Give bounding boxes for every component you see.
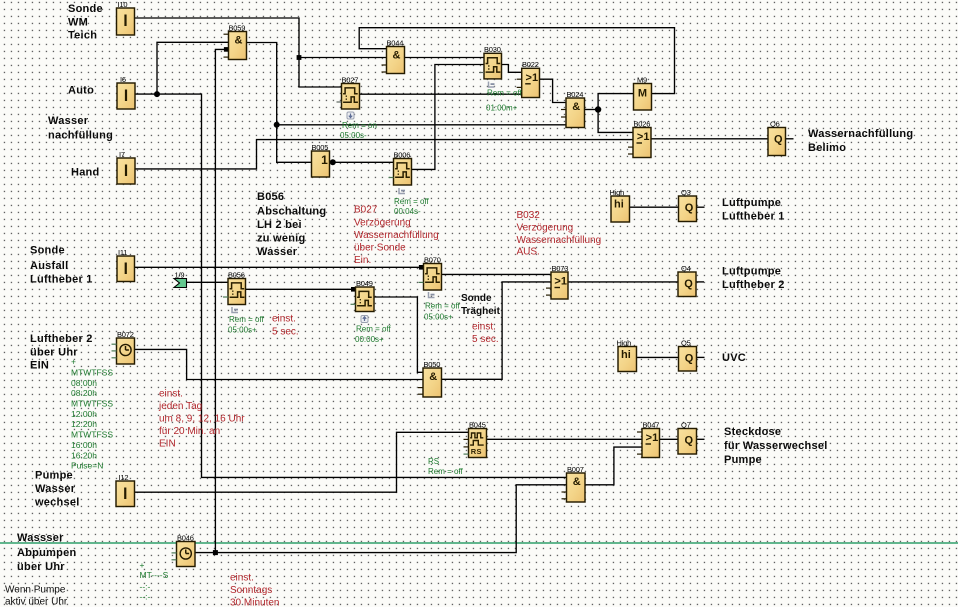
- timer B027 on-delay: [342, 84, 360, 110]
- wire junction to B044.in2: [299, 57, 387, 59]
- svg-text:nachfüllung: nachfüllung: [48, 130, 113, 142]
- value icon below B049 (up arrow): [361, 316, 368, 323]
- svg-text:einst.: einst.: [230, 573, 254, 584]
- svg-text:für Wasserwechsel: für Wasserwechsel: [724, 440, 828, 452]
- pin stub B007.in4: [562, 498, 567, 500]
- svg-text:Luftheber 2: Luftheber 2: [30, 333, 93, 345]
- pin stub B073.in4: [546, 294, 551, 296]
- svg-text:Wassernachfüllung: Wassernachfüllung: [808, 128, 913, 140]
- pin stub B046.par1: [172, 552, 177, 554]
- wire junction up to B059.in3: [215, 49, 225, 552]
- pin stub B045.in3: [464, 446, 469, 448]
- wire I11.out to B070.in1: [135, 266, 424, 268]
- svg-text:High: High: [610, 188, 625, 197]
- svg-text:5 sec.: 5 sec.: [472, 334, 499, 345]
- svg-text:LH 2 bei: LH 2 bei: [257, 219, 302, 231]
- svg-text:einst.: einst.: [159, 389, 183, 400]
- svg-text:08:20h: 08:20h: [71, 388, 97, 398]
- wire Q3 output stub: [697, 206, 705, 208]
- pin stub B059.in4: [224, 56, 229, 58]
- svg-text:Belimo: Belimo: [808, 142, 846, 154]
- svg-text:AUS.: AUS.: [517, 247, 540, 258]
- pin stub B026.in3: [628, 146, 633, 148]
- AND gate B050: [423, 368, 442, 397]
- svg-text:Ein.: Ein.: [354, 255, 371, 266]
- svg-text:Pumpe: Pumpe: [35, 470, 73, 482]
- svg-text:Luftheber 2: Luftheber 2: [722, 279, 785, 291]
- svg-text:Q5: Q5: [681, 338, 691, 347]
- svg-text:Auto: Auto: [68, 85, 94, 97]
- svg-text:B056: B056: [228, 270, 245, 279]
- wire B030.out to B022.in1: [502, 65, 522, 73]
- wire hi2.out to Q5.in: [637, 356, 679, 358]
- wire Q4 output stub: [696, 281, 704, 283]
- NOT gate B005: [312, 151, 330, 177]
- svg-text:hi: hi: [614, 199, 624, 211]
- pin stub B072.par1: [112, 343, 117, 345]
- svg-text:I7: I7: [119, 150, 125, 159]
- svg-text:wechsel: wechsel: [34, 497, 80, 509]
- wire Q5 output stub: [697, 356, 705, 358]
- wire I6.out to junction: [135, 93, 157, 95]
- svg-text:Rem = off: Rem = off: [425, 302, 461, 311]
- pin stub B044.in3: [382, 64, 387, 66]
- negation underline mark B022: [525, 83, 531, 85]
- svg-text:Wassser: Wassser: [17, 532, 64, 544]
- svg-text:>1: >1: [646, 432, 659, 444]
- svg-text:+: +: [140, 560, 145, 570]
- svg-text:30 Minuten: 30 Minuten: [230, 598, 279, 607]
- pin stub B070.in2 parameter: [419, 281, 424, 283]
- svg-text:Rem = off: Rem = off: [394, 197, 430, 206]
- node pin square at B070.in1: [419, 265, 424, 270]
- wire I12.out up to B045.in1: [135, 432, 469, 492]
- svg-text:B027: B027: [342, 75, 359, 84]
- svg-text:Luftpumpe: Luftpumpe: [722, 197, 781, 209]
- wire B046.out to junction: [195, 552, 215, 554]
- value icon below B056: [232, 307, 238, 313]
- svg-text:Luftheber 1: Luftheber 1: [722, 211, 785, 223]
- svg-text:Trägheit: Trägheit: [461, 306, 501, 317]
- timer B006: [394, 159, 412, 186]
- input block I10: [117, 8, 135, 35]
- svg-text:16:00h: 16:00h: [71, 440, 97, 450]
- wire I10.out to corner: [135, 18, 300, 58]
- pulse relay B045 RS: [469, 429, 487, 458]
- svg-text:Rem = on: Rem = on: [342, 121, 377, 130]
- svg-text:Abpumpen: Abpumpen: [17, 547, 76, 559]
- value icon below B006: [399, 188, 405, 194]
- svg-text:>1: >1: [554, 276, 567, 288]
- pin stub B049.in2 parameter: [351, 303, 356, 305]
- svg-text:B047: B047: [643, 420, 660, 429]
- svg-text:B022: B022: [522, 60, 539, 69]
- AND gate B059: [229, 32, 247, 60]
- AND gate B044: [387, 47, 405, 74]
- constant-high block High (hi): [611, 196, 630, 222]
- output block Q3: [679, 196, 697, 222]
- node junction dot at (276.7,124.8): [274, 122, 280, 128]
- wire hi1.out to Q3.in: [630, 206, 679, 208]
- pin stub B045.in2: [464, 438, 469, 440]
- svg-text:hi: hi: [621, 349, 631, 361]
- pin stub B073.in3: [546, 287, 551, 289]
- pin stub B027.in2 parameter: [337, 101, 342, 103]
- node T-junction square at (215.4,552.6): [213, 550, 218, 555]
- pin stub B072.par3: [112, 357, 117, 359]
- svg-text:&: &: [235, 35, 243, 47]
- svg-text:B050: B050: [424, 360, 441, 369]
- AND gate B024: [566, 98, 585, 128]
- pin stub B047.in4: [637, 453, 642, 455]
- pin stub B072.par2: [112, 350, 117, 352]
- svg-text:1: 1: [321, 153, 328, 167]
- timer B030: [484, 53, 502, 79]
- pin stub B047.in1: [637, 431, 642, 433]
- svg-text:über Sonde: über Sonde: [354, 243, 406, 254]
- svg-text:MTWTFSS: MTWTFSS: [71, 399, 113, 409]
- value icon below B030: [489, 82, 495, 88]
- wire B005.out to B006.in1: [330, 161, 394, 163]
- wire B070.out to B073.in1: [442, 273, 552, 275]
- timer B070: [424, 264, 442, 291]
- output block Q7: [678, 429, 697, 455]
- flag block M9: [634, 84, 652, 111]
- svg-text:B046: B046: [177, 533, 194, 542]
- svg-text:jeden Tag: jeden Tag: [158, 401, 202, 412]
- wire junction to B024.in4: [277, 124, 566, 126]
- input block I11: [117, 256, 135, 282]
- svg-text:für 20 Min. an: für 20 Min. an: [159, 426, 220, 437]
- node T-junction square at (299,57.5): [297, 55, 302, 60]
- svg-text:Q: Q: [684, 278, 693, 290]
- svg-text:16:20h: 16:20h: [71, 451, 97, 461]
- wire junction right-down long branch to B007.in1: [157, 94, 567, 477]
- pin stub B044.in4: [382, 71, 387, 73]
- svg-text:B059: B059: [229, 23, 246, 32]
- svg-text:--:-: --:-: [140, 592, 151, 602]
- svg-text:B027: B027: [354, 205, 378, 216]
- wire junction right to B007.in2: [215, 485, 566, 553]
- svg-text:B032: B032: [517, 210, 541, 221]
- pin stub B050.in3: [418, 387, 423, 389]
- svg-text:Verzögerung: Verzögerung: [517, 223, 574, 234]
- svg-text:aktiv über Uhr: aktiv über Uhr: [5, 597, 68, 607]
- wire I7.out to B026.in2: [135, 140, 633, 169]
- wire B024.out to junction: [585, 109, 599, 111]
- svg-text:Q: Q: [685, 353, 694, 365]
- svg-text:Verzögerung: Verzögerung: [354, 218, 411, 229]
- svg-text:B007: B007: [567, 465, 584, 474]
- svg-text:Luftpumpe: Luftpumpe: [722, 266, 781, 278]
- svg-text:1/9: 1/9: [175, 270, 185, 279]
- svg-text:Q6: Q6: [770, 119, 780, 128]
- svg-text:05:00s-: 05:00s-: [340, 131, 367, 140]
- OR gate B073: [551, 272, 568, 299]
- pin stub B045.in4 parameter: [464, 453, 469, 455]
- svg-text:M9: M9: [637, 75, 647, 84]
- node junction dot at (332.8,162.3): [330, 159, 336, 165]
- svg-text:Wassernachfüllung: Wassernachfüllung: [517, 235, 602, 246]
- value icon below B070: [429, 292, 435, 298]
- wire B050.out up to B073.in2: [442, 282, 552, 379]
- pin stub B022.in3: [517, 86, 522, 88]
- svg-text:B072: B072: [117, 330, 134, 339]
- input block I7: [117, 158, 135, 184]
- svg-text:Teich: Teich: [68, 30, 97, 42]
- svg-text:RS: RS: [471, 447, 482, 456]
- OR gate B047: [642, 429, 660, 458]
- svg-text:B026: B026: [634, 119, 651, 128]
- wire Q7 output stub: [697, 438, 705, 440]
- svg-text:>1: >1: [637, 131, 650, 143]
- svg-text:Rem = off: Rem = off: [229, 315, 265, 324]
- pin stub B026.in4: [628, 153, 633, 155]
- input block I12: [116, 481, 135, 507]
- svg-text:Q: Q: [684, 435, 693, 447]
- svg-text:MTWTFSS: MTWTFSS: [71, 368, 113, 378]
- svg-text:I10: I10: [118, 0, 128, 9]
- weekly timer clock B072: [117, 338, 135, 364]
- pin stub B050.in4: [418, 393, 423, 395]
- svg-text:Wasser: Wasser: [48, 115, 89, 127]
- svg-text:High: High: [617, 338, 632, 347]
- pin stub B056.in2 parameter: [223, 296, 228, 298]
- timer B056 off-delay: [228, 279, 246, 305]
- value icon below B027 (down arrow): [347, 112, 354, 119]
- svg-text:5 sec.: 5 sec.: [272, 327, 299, 338]
- svg-text:MTWTFSS: MTWTFSS: [71, 430, 113, 440]
- svg-text:B030: B030: [484, 45, 501, 54]
- svg-text:Pumpe: Pumpe: [724, 454, 762, 466]
- output block Q5: [679, 347, 697, 372]
- svg-text:I12: I12: [119, 473, 129, 482]
- svg-text:12:00h: 12:00h: [71, 409, 97, 419]
- svg-text:Rem = off: Rem = off: [356, 325, 392, 334]
- wire B049.out down to B050.in1: [374, 297, 423, 372]
- timer B049: [356, 287, 375, 312]
- svg-text:EIN: EIN: [159, 439, 176, 450]
- OR gate B026: [633, 128, 651, 158]
- wire page-divider green line: [0, 542, 958, 544]
- wire B006.out up to B030.in2: [412, 65, 485, 170]
- svg-text:RS: RS: [428, 457, 439, 466]
- svg-text:--:-: --:-: [140, 582, 151, 592]
- negation underline mark B026: [637, 142, 643, 144]
- svg-text:einst.: einst.: [472, 322, 496, 333]
- svg-text:Hand: Hand: [71, 167, 100, 179]
- svg-text:MT----S: MT----S: [140, 570, 169, 580]
- svg-text:Wenn Pumpe: Wenn Pumpe: [5, 585, 66, 596]
- output block Q6: [768, 128, 786, 156]
- negation underline mark B073: [555, 287, 561, 289]
- svg-text:Steckdose: Steckdose: [724, 426, 781, 438]
- svg-text:Q3: Q3: [681, 188, 691, 197]
- wire junction down to B026.in1: [598, 110, 633, 133]
- svg-text:B024: B024: [567, 90, 584, 99]
- svg-text:zu wenig: zu wenig: [257, 233, 305, 245]
- svg-text:05:00s+: 05:00s+: [424, 313, 453, 322]
- wire junction down to B027.in1: [299, 58, 342, 88]
- svg-text:Q7: Q7: [681, 420, 691, 429]
- svg-text:&: &: [573, 476, 581, 488]
- svg-text:Q4: Q4: [681, 264, 691, 273]
- svg-text:05:00s+: 05:00s+: [228, 326, 257, 335]
- pin stub B030.in3 parameter: [479, 72, 484, 74]
- input block I6: [117, 83, 135, 109]
- svg-text:B049: B049: [356, 279, 373, 288]
- wire junction up to B059.in2: [157, 42, 229, 94]
- wire B022.out to B024.in1: [540, 79, 567, 102]
- svg-text:+: +: [71, 357, 76, 367]
- connector flag 1/9 (open connector): [174, 279, 187, 288]
- AND gate B007: [567, 473, 586, 502]
- svg-text:über Uhr: über Uhr: [17, 561, 65, 573]
- pin stub B007.in3: [562, 491, 567, 493]
- svg-text:Ausfall: Ausfall: [30, 260, 68, 272]
- svg-text:Sonde: Sonde: [30, 245, 65, 257]
- wire Q6 output stub: [786, 138, 794, 140]
- pin stub B046.par2: [172, 559, 177, 561]
- svg-text:Rem = off: Rem = off: [428, 467, 464, 476]
- wire B047.out to Q7.in: [660, 438, 679, 440]
- svg-text:I6: I6: [120, 75, 126, 84]
- node junction dot at (157,94.1): [154, 91, 160, 97]
- constant-high block High (hi) 2: [618, 347, 637, 372]
- svg-text:B056: B056: [257, 191, 284, 203]
- svg-text:Abschaltung: Abschaltung: [257, 206, 326, 218]
- svg-text:WM: WM: [68, 17, 88, 29]
- wire B059.out down to B005.in: [247, 43, 312, 163]
- svg-text:Wasser: Wasser: [35, 483, 76, 495]
- svg-text:&: &: [393, 50, 401, 62]
- wire B027.out to B022.in4: [360, 93, 522, 95]
- negation underline mark B047: [646, 443, 652, 445]
- wire B056.out to B049.in1: [246, 288, 356, 290]
- svg-text:Wassernachfüllung: Wassernachfüllung: [354, 230, 439, 241]
- OR gate B022: [522, 68, 540, 97]
- svg-text:B070: B070: [424, 255, 441, 264]
- svg-text:Q: Q: [685, 202, 694, 214]
- pin stub B022.in2: [517, 78, 522, 80]
- node pin square at B049.in1: [351, 287, 356, 292]
- wire B007.out up to B047.in3: [585, 447, 642, 485]
- wire B044.out to B030.in1: [405, 57, 485, 59]
- wire junction up to M9.in: [598, 94, 633, 110]
- svg-text:I11: I11: [118, 248, 127, 257]
- svg-text:>1: >1: [526, 72, 539, 84]
- wire B072.out down to B050.in2: [135, 349, 424, 379]
- svg-text:Wasser: Wasser: [257, 246, 298, 258]
- svg-text:08:00h: 08:00h: [71, 378, 97, 388]
- wire B045.out to B047.in2: [487, 438, 643, 440]
- svg-text:UVC: UVC: [722, 352, 746, 364]
- svg-text:Sonde: Sonde: [68, 3, 103, 15]
- wire M9.out feedback to B044.in1: [359, 28, 674, 94]
- svg-text:Sonntags: Sonntags: [230, 585, 272, 596]
- svg-text:B045: B045: [469, 420, 486, 429]
- svg-text:12:20h: 12:20h: [71, 419, 97, 429]
- node pin square at B059.in3: [224, 47, 229, 52]
- svg-text:um 8, 9, 12, 16 Uhr: um 8, 9, 12, 16 Uhr: [159, 414, 245, 425]
- pin stub B059.in1: [224, 33, 229, 35]
- svg-text:B006: B006: [394, 150, 411, 159]
- svg-text:Q: Q: [774, 134, 783, 146]
- wire connector 1/9 to B056.in1: [187, 281, 229, 283]
- pin stub B024.in3: [561, 116, 566, 118]
- svg-text:Sonde: Sonde: [461, 293, 492, 304]
- weekly timer clock B046: [177, 542, 196, 567]
- svg-text:&: &: [429, 371, 437, 383]
- svg-text:EIN: EIN: [30, 360, 49, 372]
- svg-text:einst.: einst.: [272, 314, 296, 325]
- svg-text:B073: B073: [552, 264, 569, 273]
- svg-text:B005: B005: [312, 143, 329, 152]
- node junction dot at (598.1,109.5): [595, 106, 601, 112]
- svg-text:01:00m+: 01:00m+: [486, 103, 518, 112]
- wire B073.out to Q4.in: [568, 281, 678, 283]
- svg-text:Rem = off: Rem = off: [487, 89, 523, 98]
- svg-text:B044: B044: [387, 38, 404, 47]
- pin stub B006.in2 parameter: [389, 177, 394, 179]
- pin stub B024.in2: [561, 109, 566, 111]
- output block Q4: [678, 272, 696, 297]
- svg-text:Luftheber 1: Luftheber 1: [30, 274, 93, 286]
- wire B026.out to Q6.in: [651, 138, 768, 140]
- svg-text:00:00s+: 00:00s+: [355, 335, 384, 344]
- svg-text:00:04s-: 00:04s-: [394, 207, 421, 216]
- svg-text:&: &: [572, 101, 580, 113]
- svg-text:M: M: [638, 88, 647, 100]
- svg-text:Pulse=N: Pulse=N: [71, 461, 103, 471]
